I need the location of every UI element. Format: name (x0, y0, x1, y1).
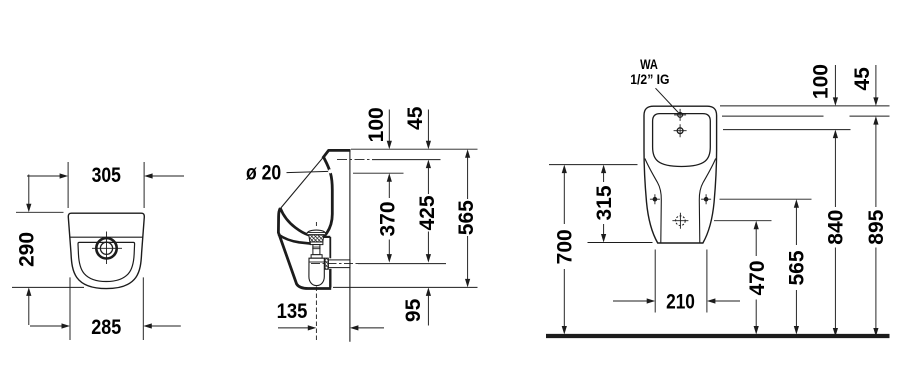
svg-text:100: 100 (365, 107, 388, 142)
svg-text:840: 840 (825, 210, 848, 245)
svg-text:895: 895 (865, 209, 888, 244)
svg-text:100: 100 (810, 64, 833, 99)
svg-text:315: 315 (593, 185, 616, 220)
svg-text:305: 305 (92, 164, 122, 187)
svg-text:ø 20: ø 20 (246, 162, 281, 185)
svg-text:700: 700 (554, 229, 577, 264)
svg-text:370: 370 (377, 201, 400, 236)
svg-text:45: 45 (851, 67, 874, 91)
svg-text:1/2” IG: 1/2” IG (630, 72, 669, 87)
svg-text:565: 565 (455, 200, 478, 235)
svg-text:45: 45 (404, 106, 427, 130)
svg-text:135: 135 (277, 300, 308, 323)
svg-text:565: 565 (786, 250, 809, 285)
svg-text:285: 285 (91, 316, 121, 339)
svg-text:210: 210 (666, 291, 695, 314)
svg-text:95: 95 (402, 298, 425, 322)
svg-text:WA: WA (640, 57, 658, 72)
svg-text:290: 290 (16, 232, 39, 267)
svg-text:470: 470 (746, 260, 769, 295)
svg-text:425: 425 (416, 195, 439, 230)
